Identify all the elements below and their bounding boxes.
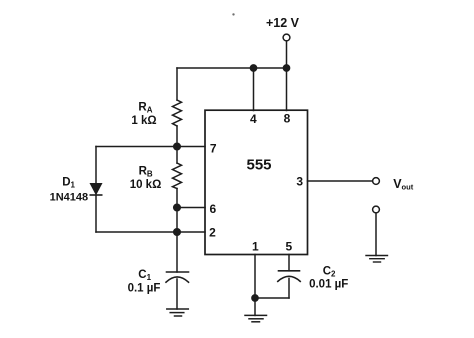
svg-text:+12 V: +12 V [266, 16, 300, 30]
svg-text:1N4148: 1N4148 [50, 191, 89, 203]
svg-text:C2: C2 [323, 265, 336, 278]
wire pin1 drop [254, 255, 256, 299]
svg-text:D1: D1 [62, 176, 75, 189]
svg-text:RB: RB [139, 166, 153, 179]
ground C1 [167, 309, 189, 316]
capacitor C2 [278, 271, 300, 282]
wire pin5-pin1 bottom row [255, 297, 289, 299]
junction node RA/RB/pin7 [174, 143, 181, 150]
svg-text:0.1 µF: 0.1 µF [128, 283, 161, 295]
wire output ground lead [375, 213, 377, 256]
svg-text:4: 4 [250, 112, 257, 126]
capacitor C1 [166, 272, 189, 282]
junction pin1/ground [252, 295, 258, 301]
ground pin1 [245, 315, 267, 321]
wire pin1 ground lead [254, 298, 256, 315]
svg-text:7: 7 [210, 142, 217, 156]
svg-text:5: 5 [285, 240, 292, 254]
junction rail/pin4 [250, 65, 256, 71]
wire RB top lead [176, 147, 178, 164]
IC 555 timer [205, 110, 308, 254]
terminal Vout [373, 178, 380, 185]
resistor RB [173, 163, 182, 189]
wire pin8 drop [286, 68, 288, 111]
wire RA bottom lead [176, 126, 178, 147]
svg-text:10 kΩ: 10 kΩ [130, 179, 162, 191]
junction node pin2 [174, 229, 181, 236]
wire RB bottom lead [176, 189, 178, 208]
junction node RB/pin6 [174, 204, 181, 211]
resistor RA [173, 100, 182, 126]
svg-text:1 kΩ: 1 kΩ [131, 115, 156, 127]
svg-text:RA: RA [138, 101, 152, 114]
wire diode anode lead [95, 147, 97, 184]
junction rail/pin8 [283, 65, 289, 71]
wire pin6 stub [177, 207, 205, 209]
svg-text:555: 555 [246, 157, 271, 174]
supply terminal +12V [283, 34, 290, 41]
wire RA top lead [176, 68, 178, 100]
svg-text:8: 8 [284, 112, 291, 126]
svg-text:C1: C1 [138, 269, 151, 282]
wire pin4 drop [253, 68, 255, 111]
svg-text:3: 3 [296, 174, 303, 188]
svg-text:0.01 µF: 0.01 µF [309, 279, 348, 291]
svg-text:6: 6 [209, 202, 216, 216]
svg-text:Vout: Vout [393, 177, 414, 192]
wire pin5 drop [288, 255, 290, 271]
wire top rail [177, 67, 287, 69]
wire diode cathode lead [95, 195, 97, 232]
wire C1 top lead [176, 232, 178, 272]
wire pin7 row [96, 146, 205, 148]
ground output [366, 256, 388, 263]
svg-text:2: 2 [209, 226, 216, 240]
terminal ground reference [373, 206, 380, 213]
wire supply stub [286, 41, 288, 68]
scan speck [232, 13, 234, 15]
wire pin3 output [308, 180, 373, 182]
wire pin6-pin2 link [176, 208, 178, 233]
wire C2 bottom lead [288, 279, 290, 299]
wire pin2 row [96, 231, 205, 233]
wire C1 bottom lead [176, 279, 178, 309]
svg-text:1: 1 [252, 240, 259, 254]
diode D1 [90, 184, 101, 196]
